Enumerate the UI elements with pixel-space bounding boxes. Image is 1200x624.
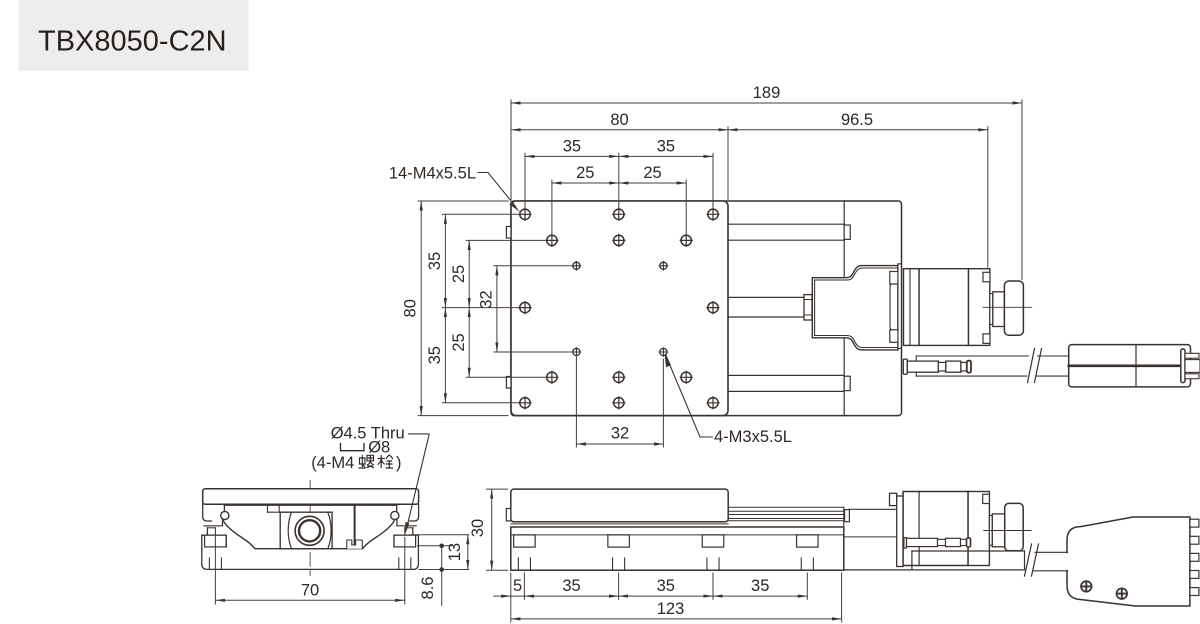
svg-text:25: 25 [576, 164, 594, 182]
svg-text:TBX8050-C2N: TBX8050-C2N [38, 26, 227, 58]
svg-text:35: 35 [426, 252, 444, 270]
svg-text:13: 13 [446, 543, 464, 561]
svg-text:4-M3x5.5L: 4-M3x5.5L [714, 428, 792, 446]
svg-text:): ) [396, 454, 402, 472]
svg-text:32: 32 [478, 290, 496, 308]
svg-text:8.6: 8.6 [419, 577, 437, 600]
svg-text:32: 32 [611, 424, 629, 442]
svg-text:35: 35 [657, 577, 675, 595]
svg-text:35: 35 [751, 577, 769, 595]
svg-text:Ø8: Ø8 [368, 439, 390, 457]
svg-text:96.5: 96.5 [841, 111, 873, 129]
svg-text:35: 35 [562, 577, 580, 595]
svg-text:25: 25 [643, 164, 661, 182]
svg-text:35: 35 [563, 137, 581, 155]
svg-text:123: 123 [657, 600, 685, 618]
svg-text:14-M4x5.5L: 14-M4x5.5L [389, 165, 476, 183]
svg-text:35: 35 [426, 346, 444, 364]
svg-text:30: 30 [469, 519, 487, 537]
svg-text:70: 70 [301, 581, 319, 599]
svg-text:25: 25 [450, 265, 468, 283]
svg-text:5: 5 [513, 577, 522, 595]
svg-text:(4-M4: (4-M4 [311, 454, 354, 472]
svg-text:80: 80 [610, 111, 628, 129]
svg-text:80: 80 [402, 299, 420, 317]
svg-text:35: 35 [657, 137, 675, 155]
svg-text:189: 189 [753, 84, 781, 102]
svg-text:25: 25 [450, 333, 468, 351]
